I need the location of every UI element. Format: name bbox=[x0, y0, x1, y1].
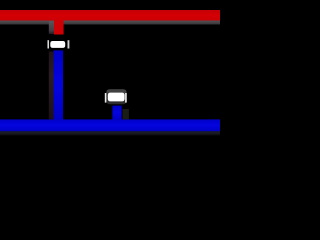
fuse F2 bbox=[105, 89, 127, 104]
fuse F1 bbox=[48, 40, 70, 48]
ground rail (blue bus) bbox=[0, 119, 220, 135]
wire: blue return from fuse F1 down to ground rail bbox=[49, 50, 63, 119]
wire: red feed from supply rail down to fuse F1 bbox=[49, 21, 64, 35]
+12V supply rail (red bus) bbox=[0, 10, 220, 25]
wire: blue from fuse F2 down to ground rail bbox=[112, 106, 128, 120]
